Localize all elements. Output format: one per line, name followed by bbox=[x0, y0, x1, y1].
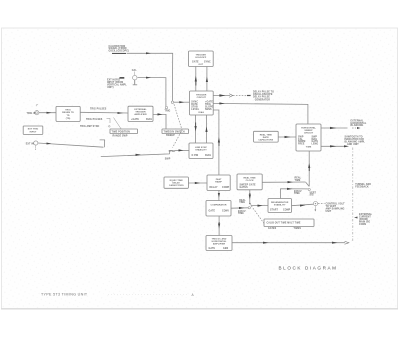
wire step-up terminal near x=104 bbox=[100, 140, 105, 147]
svg-text:BLOCK DIAGRAM: BLOCK DIAGRAM bbox=[279, 265, 338, 270]
svg-text:FREE: FREE bbox=[298, 144, 305, 146]
svg-text:DELAY: DELAY bbox=[172, 182, 180, 185]
svg-text:DIAG: DIAG bbox=[198, 111, 204, 114]
wire mechanical dashed link to line sync input bbox=[169, 104, 189, 153]
svg-text:EXTERNAL: EXTERNAL bbox=[134, 108, 147, 111]
note block diagram title bbox=[279, 265, 338, 270]
svg-text:UNIT: UNIT bbox=[326, 211, 332, 213]
block real time rate capacitors bbox=[254, 131, 279, 142]
bottom sheet edge bbox=[1, 308, 398, 310]
note real/equiv labels at sweep switch bbox=[294, 177, 302, 196]
svg-text:CAPACITORS: CAPACITORS bbox=[258, 139, 273, 142]
svg-text:GENERATOR: GENERATOR bbox=[255, 99, 271, 102]
svg-text:CAL: CAL bbox=[132, 69, 138, 72]
svg-text:TIME: TIME bbox=[295, 180, 301, 182]
svg-text:RAMP: RAMP bbox=[215, 180, 222, 183]
svg-text:COMP: COMP bbox=[222, 187, 230, 189]
block fast ramp bbox=[207, 175, 230, 191]
node control voltage connector bbox=[310, 192, 318, 211]
svg-text:DELAY: DELAY bbox=[210, 186, 218, 189]
svg-text:OSCILLOSCOPE): OSCILLOSCOPE) bbox=[109, 51, 129, 53]
svg-text:TD: TD bbox=[66, 115, 69, 117]
wire trigger circuit to line sync left bbox=[195, 115, 197, 143]
svg-text:SENS: SENS bbox=[205, 109, 212, 111]
wire dashes from connector to note bbox=[318, 203, 325, 205]
svg-text:LEVEL: LEVEL bbox=[191, 109, 199, 111]
svg-text:+GATE: +GATE bbox=[131, 118, 139, 121]
note control voltage destination bbox=[326, 203, 346, 213]
wire switch junction to regenerator bbox=[251, 205, 269, 207]
svg-text:FEEDBACK: FEEDBACK bbox=[355, 186, 369, 189]
wire long lower run to sweep switch bbox=[101, 150, 173, 160]
svg-text:BLANKING: BLANKING bbox=[351, 124, 364, 127]
svg-text:INPUT: INPUT bbox=[30, 132, 37, 134]
wire fast ramp to comparator bbox=[218, 191, 220, 201]
node switch contact SW1 bbox=[171, 101, 173, 103]
note ext horiz input source bbox=[107, 77, 127, 89]
svg-text:COMPARATOR: COMPARATOR bbox=[210, 204, 226, 207]
svg-text:SYNC: SYNC bbox=[204, 62, 211, 64]
svg-text:GATE: GATE bbox=[209, 210, 216, 213]
svg-text:(TD): (TD) bbox=[66, 118, 71, 120]
wire horizontal sweep blanking output bbox=[321, 127, 361, 129]
svg-text:DIAG: DIAG bbox=[205, 154, 211, 157]
svg-text:START: START bbox=[270, 208, 278, 211]
svg-text:TRIG PULSES: TRIG PULSES bbox=[90, 108, 107, 110]
label box sweep time/div switch left bbox=[110, 129, 138, 137]
svg-text:AMPLIFIER: AMPLIFIER bbox=[134, 113, 147, 116]
block equivalent time delay capacitors bbox=[164, 177, 188, 188]
block trigger circuit bbox=[190, 91, 214, 115]
wire trig shaper to ext trigger amplifier bbox=[80, 108, 128, 129]
note sawtooth destination bbox=[345, 136, 366, 146]
block horizontal sweep circuit bbox=[296, 124, 321, 151]
svg-text:TIMES: TIMES bbox=[294, 228, 302, 230]
wire regenerator to control volt connector bbox=[292, 204, 314, 206]
svg-text:LENG: LENG bbox=[312, 144, 319, 146]
svg-text:SWP: SWP bbox=[165, 158, 171, 160]
svg-text:STABILITY: STABILITY bbox=[195, 149, 207, 152]
svg-text:DIAG: DIAG bbox=[146, 118, 152, 121]
svg-text:GATE: GATE bbox=[192, 61, 199, 64]
block line sync stability bbox=[189, 143, 213, 159]
svg-text:EXT IN: EXT IN bbox=[26, 143, 34, 145]
svg-text:AMPLIFIER: AMPLIFIER bbox=[213, 243, 226, 246]
svg-text:CIRCUIT: CIRCUIT bbox=[304, 132, 314, 134]
svg-text:COMP: COMP bbox=[283, 209, 291, 211]
wire trigger circuit jog down to fast ramp bbox=[213, 110, 220, 175]
svg-text:REAL TIME: REAL TIME bbox=[243, 177, 256, 180]
svg-text:TIME: TIME bbox=[306, 147, 312, 149]
wire cal/ext-horiz line down to trig contact bbox=[138, 77, 166, 107]
svg-text:TIME/DIV SWITCH: TIME/DIV SWITCH bbox=[164, 131, 185, 133]
wire mechanical dashed link to calib switch bbox=[251, 206, 265, 226]
svg-text:SYNC: SYNC bbox=[169, 151, 176, 153]
svg-text:FAST: FAST bbox=[216, 178, 222, 181]
node J1 trigger input connector bbox=[27, 105, 39, 115]
block trigger shaper bbox=[56, 106, 80, 121]
svg-text:GATE: GATE bbox=[209, 247, 216, 250]
wire comparator to switch contact bbox=[231, 207, 250, 210]
svg-text:CAPACITORS: CAPACITORS bbox=[169, 184, 184, 187]
block regenerator stability bbox=[268, 199, 292, 213]
wire trigger circuit to horizontal sweep bbox=[213, 102, 308, 124]
svg-text:CLOCK: CLOCK bbox=[246, 180, 254, 182]
note external current source bbox=[354, 213, 373, 226]
svg-text:OUT: OUT bbox=[198, 64, 203, 66]
svg-text:CONV: CONV bbox=[222, 211, 229, 213]
wire comparator to trig dc amplifier bbox=[218, 216, 220, 236]
wire rate capacitors to horizontal sweep bbox=[278, 136, 296, 138]
svg-text:EXT TRIG: EXT TRIG bbox=[28, 129, 39, 131]
svg-text:CIRCUIT: CIRCUIT bbox=[197, 97, 207, 99]
svg-text:TYPE 5T3 TIMING UNIT: TYPE 5T3 TIMING UNIT bbox=[41, 293, 88, 297]
wire J1 to trig shaper bbox=[39, 112, 56, 114]
svg-text:AND UNIT: AND UNIT bbox=[347, 143, 359, 146]
svg-text:SWEEP: SWEEP bbox=[166, 135, 175, 137]
wire trigger circuit delay pulse output (dashed) bbox=[213, 94, 250, 97]
wire calibration line to trigger circuit bbox=[127, 52, 173, 101]
label box ext trig input bbox=[23, 126, 43, 134]
label box sweep time/div switch right bbox=[162, 129, 189, 137]
svg-text:SIG: SIG bbox=[310, 195, 314, 197]
svg-text:TIME POSITION: TIME POSITION bbox=[112, 131, 131, 133]
block trigger holdoff bbox=[189, 51, 214, 67]
svg-text:STABILITY: STABILITY bbox=[274, 204, 286, 207]
note type 5T3 timing unit caption bbox=[41, 293, 195, 297]
svg-text:O PIN: O PIN bbox=[192, 155, 199, 157]
wire J2 horizontal run bbox=[38, 143, 104, 148]
block real time clock bbox=[237, 174, 262, 190]
node J2 ext sweep connector bbox=[26, 141, 38, 150]
svg-text:CALIB OUT TIME MULT TIME: CALIB OUT TIME MULT TIME bbox=[267, 222, 301, 225]
node CAL connector bbox=[132, 69, 138, 85]
svg-text:TIME: TIME bbox=[239, 202, 245, 204]
node switch contact SW2 trig bbox=[165, 106, 171, 112]
wire holdoff left vertical bbox=[195, 67, 197, 92]
svg-text:TIME: TIME bbox=[238, 213, 244, 215]
svg-text:GATES: GATES bbox=[268, 227, 277, 230]
wire ext trig amp output bbox=[153, 113, 166, 129]
svg-text:RANGE SWP: RANGE SWP bbox=[113, 134, 128, 137]
note calibration signal source bbox=[109, 45, 129, 54]
block external trigger amplifier bbox=[128, 106, 153, 121]
svg-text:DELAY PULSE: DELAY PULSE bbox=[253, 96, 270, 99]
svg-text:TRIG: TRIG bbox=[165, 110, 171, 112]
svg-text:TRIG AMP SYNC: TRIG AMP SYNC bbox=[80, 125, 100, 128]
note external horizontal blanking bbox=[351, 119, 367, 127]
wire holdoff right vertical bbox=[206, 67, 208, 92]
svg-text:TIME: TIME bbox=[294, 193, 300, 195]
note delay pulse destination bbox=[253, 91, 274, 102]
svg-text:TRIG PULSES: TRIG PULSES bbox=[86, 119, 103, 121]
block comparator bbox=[206, 201, 231, 217]
wire switch to trigger circuit input bbox=[174, 101, 190, 103]
wire sweep switch wiper from horizontal sweep bbox=[306, 151, 311, 186]
wire horizontal sweep sawtooth output bbox=[321, 145, 349, 147]
note tunnel and feedback bbox=[355, 183, 371, 189]
svg-text:HOLDOFF: HOLDOFF bbox=[195, 57, 207, 59]
note real time / equiv time switch labels bbox=[238, 199, 246, 215]
wire trig dc amplifier long output bbox=[232, 241, 349, 244]
wire external feedback dashed vertical bbox=[352, 148, 354, 242]
wire delay capacitors to fast ramp bbox=[189, 182, 207, 184]
label box calib out time mult switch bbox=[264, 219, 314, 230]
svg-text:GATES: GATES bbox=[240, 186, 249, 189]
wire line sync to trigger circuit right bbox=[205, 115, 207, 143]
svg-text:GEN: GEN bbox=[223, 248, 229, 250]
wire regenerator top to equiv contact of sweep switch bbox=[281, 188, 311, 199]
wire real time clock to real contact of sweep switch bbox=[262, 181, 305, 183]
svg-text:TRIG IN: TRIG IN bbox=[27, 113, 36, 115]
wire real time clock down to switch junction bbox=[249, 190, 251, 204]
svg-text:CONN: CONN bbox=[359, 224, 366, 226]
block trig dc horizontal amplifier bbox=[206, 236, 232, 251]
svg-text:UNIT): UNIT) bbox=[107, 87, 114, 89]
